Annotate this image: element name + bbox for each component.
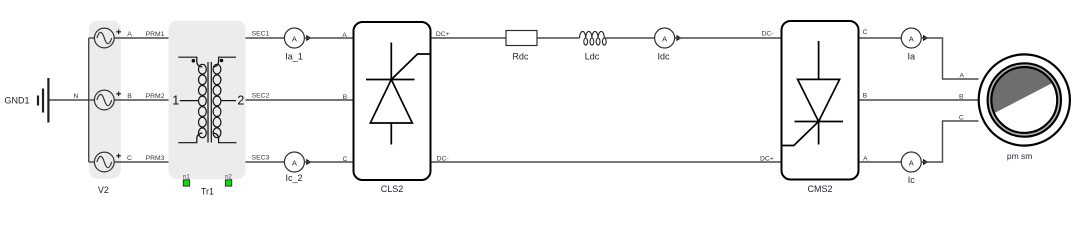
wire Ic to motor pin C bbox=[921, 121, 978, 162]
motor pmsm outer circle bbox=[979, 54, 1070, 145]
svg-text:SEC3: SEC3 bbox=[252, 155, 270, 162]
Tr1 terminal n2 bbox=[225, 180, 231, 186]
voltage source V2 background bbox=[89, 21, 121, 179]
svg-text:A: A bbox=[863, 156, 868, 163]
svg-text:B: B bbox=[127, 93, 132, 100]
svg-text:pm sm: pm sm bbox=[1007, 151, 1033, 161]
wire CMS2 A out bbox=[860, 161, 902, 163]
wire SEC1 bbox=[246, 37, 285, 39]
wire to CLS2 pin A bbox=[304, 37, 352, 39]
svg-text:A: A bbox=[662, 34, 667, 43]
inductor Ldc bbox=[580, 31, 607, 45]
svg-text:PRM1: PRM1 bbox=[146, 31, 165, 38]
rectifier CLS2 box bbox=[354, 22, 431, 180]
motor pmsm rotor dark half bbox=[991, 64, 1054, 113]
svg-text:GND1: GND1 bbox=[4, 96, 29, 106]
svg-text:Ic_2: Ic_2 bbox=[285, 173, 302, 183]
ammeter Ia bbox=[901, 28, 921, 48]
ammeter Ia_1 bbox=[284, 28, 304, 48]
ammeter Ia_1 arrow bbox=[306, 35, 311, 41]
svg-text:Ic: Ic bbox=[908, 175, 916, 185]
svg-text:SEC2: SEC2 bbox=[252, 93, 270, 100]
ammeter Ic bbox=[901, 152, 921, 172]
V2 phase c source bbox=[89, 152, 169, 172]
transformer Tr1 background bbox=[169, 21, 246, 179]
svg-text:Ia_1: Ia_1 bbox=[285, 51, 303, 61]
svg-text:CMS2: CMS2 bbox=[807, 184, 832, 194]
svg-text:C: C bbox=[342, 156, 347, 163]
ammeter Ia arrow bbox=[923, 35, 928, 41]
wire DC+ top bbox=[432, 37, 507, 39]
svg-text:B: B bbox=[343, 94, 348, 101]
ground bbox=[38, 78, 48, 123]
svg-text:A: A bbox=[292, 34, 297, 43]
svg-text:PRM2: PRM2 bbox=[146, 93, 165, 100]
wire DC- bottom rail bbox=[432, 161, 781, 163]
svg-text:A: A bbox=[127, 31, 132, 38]
svg-text:Rdc: Rdc bbox=[512, 52, 529, 62]
wire N: ground to V2 bbox=[50, 99, 89, 101]
svg-text:A: A bbox=[909, 34, 914, 43]
wire Rdc to Ldc bbox=[537, 37, 580, 39]
V2 neutral bus wire bbox=[88, 38, 90, 162]
svg-text:B: B bbox=[863, 93, 868, 100]
svg-text:C: C bbox=[862, 29, 867, 36]
wire Ia to motor pin A bbox=[921, 38, 978, 79]
svg-text:SEC1: SEC1 bbox=[252, 31, 270, 38]
wire SEC2 bbox=[246, 99, 353, 101]
svg-text:C: C bbox=[959, 115, 964, 122]
svg-text:DC+: DC+ bbox=[436, 31, 450, 38]
ammeter Ic_2 bbox=[284, 152, 304, 172]
svg-text:DC-: DC- bbox=[437, 156, 449, 163]
Tr1 secondary polarity dot bbox=[220, 59, 224, 63]
svg-text:n2: n2 bbox=[225, 175, 232, 181]
ammeter Idc bbox=[655, 28, 675, 48]
thyristor symbol in CLS2 bbox=[366, 43, 430, 145]
svg-text:DC+: DC+ bbox=[760, 156, 774, 163]
svg-text:N: N bbox=[74, 93, 79, 100]
resistor Rdc bbox=[506, 31, 537, 46]
ammeter Ic arrow bbox=[923, 159, 928, 165]
Tr1 primary winding bbox=[178, 57, 206, 143]
Tr1 secondary winding bbox=[213, 57, 237, 143]
svg-text:2: 2 bbox=[237, 94, 244, 108]
svg-text:B: B bbox=[959, 94, 964, 101]
svg-text:V2: V2 bbox=[98, 185, 109, 195]
motor pmsm stator ring bbox=[990, 65, 1060, 135]
svg-text:A: A bbox=[960, 73, 965, 80]
V2 phase b source bbox=[89, 90, 169, 110]
wire CMS2 C out bbox=[860, 37, 902, 39]
svg-text:A: A bbox=[909, 158, 914, 167]
motor pmsm stator ring gray line bbox=[990, 65, 1060, 135]
wire Idc to CMS2 bbox=[675, 37, 781, 39]
wire to CLS2 pin C bbox=[304, 161, 352, 163]
inverter CMS2 box bbox=[782, 21, 859, 180]
svg-text:A: A bbox=[292, 158, 297, 167]
wire Ldc to Idc bbox=[604, 37, 654, 39]
V2 phase a source bbox=[89, 28, 169, 48]
svg-text:Tr1: Tr1 bbox=[201, 186, 214, 196]
svg-text:A: A bbox=[342, 32, 347, 39]
svg-text:CLS2: CLS2 bbox=[381, 184, 404, 194]
svg-text:Ldc: Ldc bbox=[585, 52, 600, 62]
Tr1 terminal n1 bbox=[183, 180, 189, 186]
svg-text:C: C bbox=[127, 155, 132, 162]
svg-text:Idc: Idc bbox=[657, 52, 670, 62]
svg-text:DC-: DC- bbox=[762, 31, 774, 38]
svg-text:Ia: Ia bbox=[908, 52, 916, 62]
wire CMS2 B out to motor bbox=[860, 99, 979, 101]
svg-text:1: 1 bbox=[172, 93, 179, 107]
Tr1 lead of winding 2 bbox=[221, 100, 236, 102]
thyristor symbol in CMS2 bbox=[783, 41, 844, 146]
svg-text:PRM3: PRM3 bbox=[146, 155, 165, 162]
ammeter Ic_2 arrow bbox=[306, 159, 311, 165]
Tr1 lead of winding 1 bbox=[180, 100, 199, 102]
Tr1 core bbox=[208, 62, 211, 143]
svg-text:n1: n1 bbox=[183, 175, 190, 181]
Tr1 primary polarity dot bbox=[192, 59, 196, 63]
ammeter Idc arrow bbox=[676, 35, 681, 41]
wire SEC3 bbox=[246, 161, 285, 163]
